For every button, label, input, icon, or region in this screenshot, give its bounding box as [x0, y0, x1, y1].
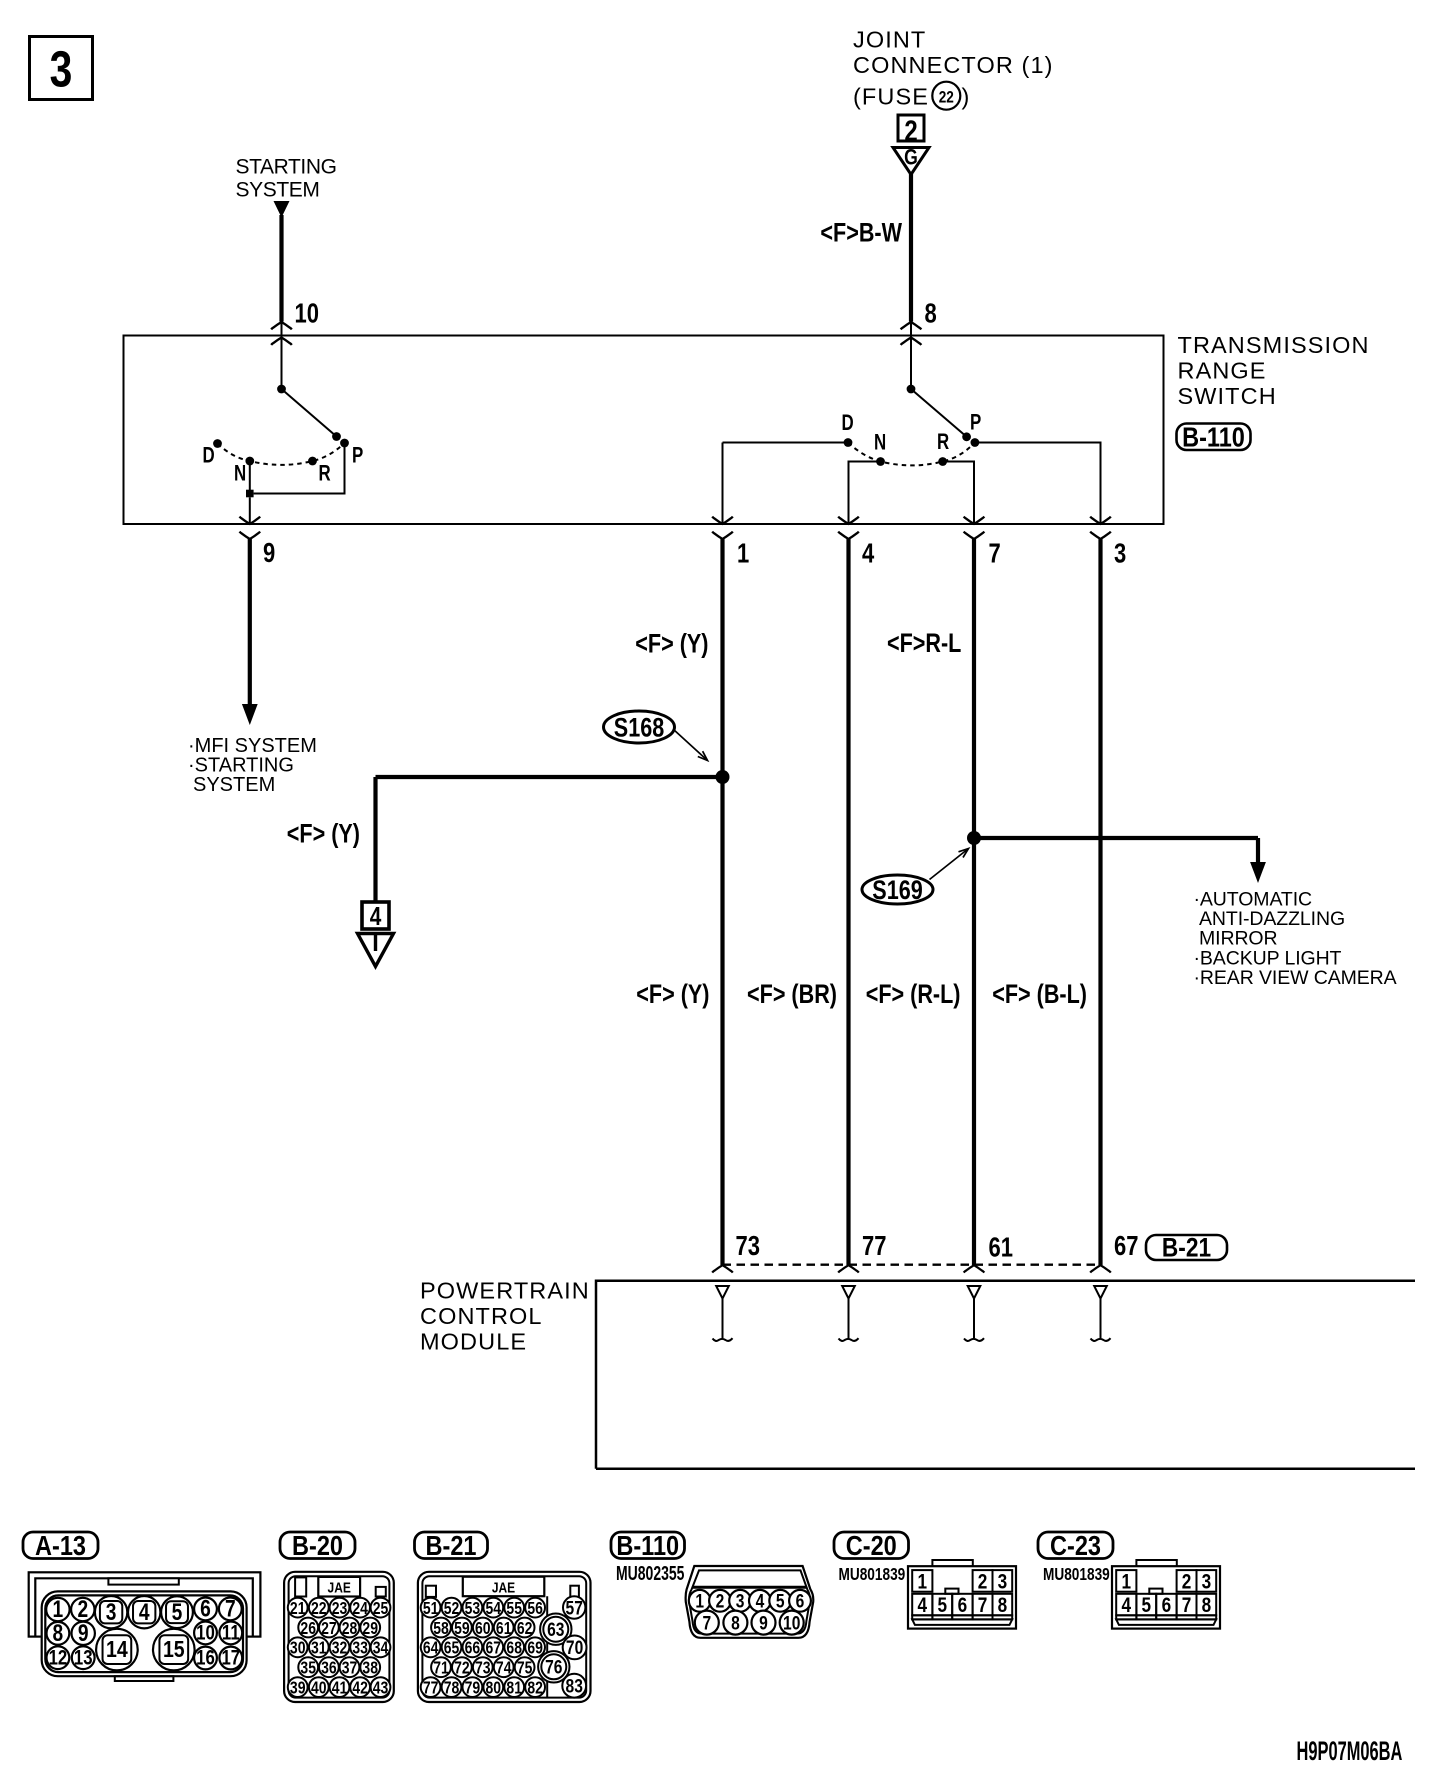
svg-text:1: 1 — [695, 1590, 704, 1612]
svg-text:C-23: C-23 — [1050, 1531, 1101, 1561]
svg-text:10: 10 — [196, 1622, 215, 1645]
svg-text:17: 17 — [221, 1647, 240, 1670]
svg-text:58: 58 — [433, 1619, 449, 1638]
svg-text:<F> (Y): <F> (Y) — [636, 980, 709, 1010]
svg-text:3: 3 — [1202, 1570, 1212, 1594]
svg-text:<F> (Y): <F> (Y) — [635, 629, 708, 659]
svg-text:83: 83 — [566, 1675, 584, 1697]
svg-text:60: 60 — [475, 1619, 491, 1638]
svg-text:JOINT: JOINT — [853, 27, 926, 53]
svg-text:B-20: B-20 — [292, 1531, 343, 1561]
svg-text:R: R — [319, 461, 331, 486]
svg-text:H9P07M06BA: H9P07M06BA — [1297, 1736, 1403, 1766]
svg-text:22: 22 — [939, 88, 954, 107]
svg-text:<F> (BR): <F> (BR) — [747, 980, 837, 1010]
svg-text:26: 26 — [300, 1619, 316, 1638]
svg-text:B-110: B-110 — [616, 1531, 679, 1561]
svg-text:5: 5 — [776, 1590, 785, 1612]
svg-text:4: 4 — [1122, 1593, 1132, 1617]
svg-text:10: 10 — [295, 298, 319, 329]
svg-text:SYSTEM: SYSTEM — [193, 774, 275, 796]
svg-text:69: 69 — [527, 1639, 543, 1658]
svg-text:STARTING: STARTING — [236, 156, 337, 179]
svg-text:2: 2 — [904, 113, 917, 147]
svg-text:<F>B-W: <F>B-W — [820, 218, 902, 248]
svg-text:CONTROL: CONTROL — [420, 1303, 543, 1329]
svg-text:7: 7 — [225, 1594, 236, 1622]
svg-text:41: 41 — [332, 1679, 348, 1698]
svg-text:21: 21 — [290, 1600, 306, 1619]
svg-text:10: 10 — [783, 1612, 801, 1634]
svg-text:SWITCH: SWITCH — [1178, 383, 1277, 409]
svg-text:34: 34 — [373, 1639, 389, 1658]
svg-text:<F> (Y): <F> (Y) — [287, 819, 360, 849]
svg-text:82: 82 — [527, 1679, 543, 1698]
svg-text:42: 42 — [352, 1679, 368, 1698]
svg-text:73: 73 — [736, 1231, 760, 1262]
svg-text:54: 54 — [486, 1600, 502, 1619]
svg-text:CONNECTOR (1): CONNECTOR (1) — [853, 52, 1054, 78]
svg-text:MIRROR: MIRROR — [1199, 928, 1277, 950]
svg-text:4: 4 — [370, 902, 382, 931]
svg-text:37: 37 — [342, 1659, 358, 1678]
svg-text:6: 6 — [1162, 1593, 1172, 1617]
svg-text:62: 62 — [517, 1619, 533, 1638]
svg-text:61: 61 — [989, 1232, 1014, 1263]
svg-text:8: 8 — [731, 1612, 740, 1634]
svg-text:8: 8 — [1202, 1593, 1212, 1617]
svg-text:29: 29 — [362, 1619, 378, 1638]
svg-text:76: 76 — [545, 1656, 563, 1678]
svg-text:MODULE: MODULE — [420, 1329, 527, 1355]
svg-text:75: 75 — [517, 1659, 533, 1678]
svg-text:43: 43 — [373, 1679, 389, 1698]
svg-text:3: 3 — [998, 1570, 1008, 1594]
svg-text:): ) — [962, 84, 970, 110]
svg-text:12: 12 — [49, 1647, 68, 1670]
svg-text:16: 16 — [196, 1647, 215, 1670]
svg-text:77: 77 — [862, 1231, 886, 1262]
svg-text:36: 36 — [321, 1659, 337, 1678]
svg-text:S169: S169 — [872, 876, 922, 906]
svg-text:P: P — [970, 410, 981, 435]
svg-text:3: 3 — [106, 1598, 117, 1626]
svg-text:65: 65 — [444, 1639, 460, 1658]
svg-text:72: 72 — [454, 1659, 470, 1678]
svg-text:9: 9 — [759, 1612, 768, 1634]
svg-text:67: 67 — [1114, 1231, 1138, 1262]
svg-text:1: 1 — [1122, 1570, 1132, 1594]
svg-text:13: 13 — [74, 1647, 93, 1670]
svg-text:71: 71 — [433, 1659, 449, 1678]
svg-text:80: 80 — [486, 1679, 502, 1698]
svg-text:81: 81 — [506, 1679, 522, 1698]
svg-text:78: 78 — [444, 1679, 460, 1698]
svg-text:53: 53 — [465, 1600, 481, 1619]
svg-text:G: G — [904, 146, 918, 170]
svg-text:33: 33 — [352, 1639, 368, 1658]
svg-text:4: 4 — [139, 1598, 150, 1626]
svg-text:RANGE: RANGE — [1178, 358, 1267, 384]
svg-text:D: D — [842, 411, 854, 436]
svg-text:1: 1 — [918, 1570, 928, 1594]
svg-text:A-13: A-13 — [35, 1531, 86, 1561]
svg-text:JAE: JAE — [492, 1579, 515, 1596]
svg-text:7: 7 — [702, 1612, 711, 1634]
svg-text:N: N — [234, 461, 246, 486]
svg-text:5: 5 — [938, 1593, 948, 1617]
svg-text:3: 3 — [1114, 538, 1126, 569]
svg-text:79: 79 — [465, 1679, 481, 1698]
svg-text:25: 25 — [373, 1600, 389, 1619]
svg-text:32: 32 — [332, 1639, 348, 1658]
svg-text:66: 66 — [465, 1639, 481, 1658]
svg-text:28: 28 — [342, 1619, 358, 1638]
svg-text:1: 1 — [737, 538, 749, 569]
svg-text:P: P — [352, 443, 363, 468]
svg-text:51: 51 — [423, 1600, 439, 1619]
svg-text:56: 56 — [527, 1600, 543, 1619]
svg-text:64: 64 — [423, 1639, 439, 1658]
svg-text:POWERTRAIN: POWERTRAIN — [420, 1278, 590, 1304]
svg-text:4: 4 — [918, 1593, 928, 1617]
svg-text:9: 9 — [78, 1619, 89, 1647]
svg-text:9: 9 — [263, 538, 275, 569]
svg-text:23: 23 — [332, 1600, 348, 1619]
svg-text:11: 11 — [222, 1622, 240, 1645]
svg-text:MU801839: MU801839 — [839, 1566, 906, 1585]
svg-text:14: 14 — [106, 1636, 128, 1662]
svg-text:35: 35 — [300, 1659, 316, 1678]
svg-text:<F> (R-L): <F> (R-L) — [866, 980, 961, 1010]
svg-text:5: 5 — [1142, 1593, 1152, 1617]
svg-text:B-21: B-21 — [1162, 1233, 1211, 1263]
svg-text:JAE: JAE — [328, 1579, 351, 1596]
svg-text:4: 4 — [756, 1590, 765, 1612]
svg-text:63: 63 — [547, 1618, 565, 1640]
svg-text:6: 6 — [200, 1594, 211, 1622]
svg-text:59: 59 — [454, 1619, 470, 1638]
svg-text:68: 68 — [506, 1639, 522, 1658]
svg-text:74: 74 — [496, 1659, 512, 1678]
svg-text:52: 52 — [444, 1600, 460, 1619]
svg-text:70: 70 — [566, 1637, 584, 1659]
svg-text:4: 4 — [862, 538, 874, 569]
svg-text:38: 38 — [362, 1659, 378, 1678]
svg-text:·AUTOMATIC: ·AUTOMATIC — [1194, 888, 1313, 910]
svg-text:B-110: B-110 — [1182, 423, 1245, 453]
svg-text:61: 61 — [496, 1619, 512, 1638]
svg-text:·REAR VIEW CAMERA: ·REAR VIEW CAMERA — [1194, 967, 1397, 989]
svg-text:8: 8 — [53, 1619, 64, 1647]
svg-text:40: 40 — [311, 1679, 327, 1698]
svg-text:MU802355: MU802355 — [616, 1561, 685, 1584]
svg-text:<F>R-L: <F>R-L — [887, 629, 961, 659]
svg-text:15: 15 — [163, 1636, 185, 1662]
svg-text:3: 3 — [50, 40, 73, 97]
svg-text:2: 2 — [978, 1570, 988, 1594]
svg-text:5: 5 — [172, 1598, 183, 1626]
svg-text:67: 67 — [486, 1639, 502, 1658]
svg-text:55: 55 — [506, 1600, 522, 1619]
svg-text:7: 7 — [978, 1593, 988, 1617]
svg-text:7: 7 — [989, 538, 1001, 569]
svg-text:6: 6 — [958, 1593, 968, 1617]
svg-text:30: 30 — [290, 1639, 306, 1658]
svg-text:S168: S168 — [614, 713, 664, 743]
svg-text:24: 24 — [352, 1600, 368, 1619]
svg-text:77: 77 — [423, 1679, 439, 1698]
svg-text:2: 2 — [1182, 1570, 1192, 1594]
svg-text:(FUSE: (FUSE — [853, 84, 929, 110]
svg-text:MU801839: MU801839 — [1043, 1566, 1110, 1585]
svg-text:3: 3 — [736, 1590, 745, 1612]
svg-text:22: 22 — [311, 1600, 327, 1619]
svg-text:SYSTEM: SYSTEM — [236, 179, 320, 202]
svg-text:8: 8 — [925, 298, 937, 329]
svg-text:73: 73 — [475, 1659, 491, 1678]
svg-text:B-21: B-21 — [426, 1531, 477, 1561]
svg-text:TRANSMISSION: TRANSMISSION — [1178, 332, 1370, 358]
svg-text:7: 7 — [1182, 1593, 1192, 1617]
svg-text:D: D — [203, 443, 215, 468]
svg-text:C-20: C-20 — [846, 1531, 897, 1561]
svg-text:8: 8 — [998, 1593, 1008, 1617]
svg-text:57: 57 — [566, 1597, 584, 1619]
svg-text:27: 27 — [321, 1619, 337, 1638]
svg-text:39: 39 — [290, 1679, 306, 1698]
svg-text:2: 2 — [716, 1590, 725, 1612]
svg-text:31: 31 — [311, 1639, 327, 1658]
svg-text:<F> (B-L): <F> (B-L) — [992, 980, 1087, 1010]
svg-text:N: N — [874, 430, 886, 455]
svg-text:6: 6 — [796, 1590, 805, 1612]
svg-text:R: R — [937, 430, 949, 455]
